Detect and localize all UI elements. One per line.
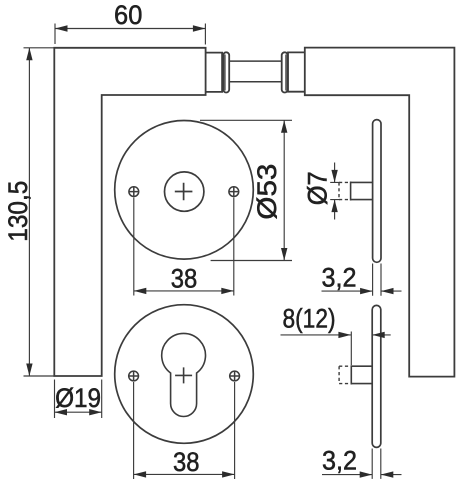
dim 60 ext lines xyxy=(55,24,205,45)
dim 38 upper arrows xyxy=(134,288,147,294)
left hub xyxy=(206,53,223,92)
left lever outline xyxy=(54,48,205,376)
svg-text:130,5: 130,5 xyxy=(3,181,33,242)
dim 3,2 upper ext lines xyxy=(373,264,381,296)
svg-text:60: 60 xyxy=(114,0,142,30)
upper pin dashed xyxy=(339,182,351,199)
key rosette circle xyxy=(115,305,254,444)
upper rose plate side view xyxy=(373,120,381,263)
dimension lines xyxy=(24,24,402,480)
PZ cross xyxy=(175,367,192,383)
dim O53 line xyxy=(283,120,285,260)
dim 38 upper line xyxy=(134,290,234,292)
lower pin dashed xyxy=(339,366,351,383)
dim O7 arrows xyxy=(331,170,337,183)
svg-text:3,2: 3,2 xyxy=(322,263,357,293)
lower left screw xyxy=(129,371,139,381)
left ring xyxy=(223,52,229,92)
rose circle front xyxy=(115,121,254,260)
lower right screw xyxy=(230,371,240,381)
right lever outline xyxy=(305,48,455,377)
dim O53 arrows xyxy=(281,120,287,133)
dim 38 lower arrows xyxy=(134,471,147,477)
right hub xyxy=(288,52,305,91)
dim 38 upper ext lines xyxy=(134,198,234,296)
dim 130,5 ext bottom xyxy=(24,375,55,377)
svg-text:8(12): 8(12) xyxy=(283,303,336,333)
rose hub circle xyxy=(165,172,204,211)
dim 3,2 upper lines xyxy=(322,290,402,292)
lower rose plate side view xyxy=(372,305,381,447)
dim 38 lower ext lines xyxy=(134,382,235,479)
upper left screw xyxy=(129,187,139,197)
svg-text:Ø53: Ø53 xyxy=(252,164,282,220)
upper pin solid xyxy=(351,182,373,201)
svg-text:38: 38 xyxy=(171,264,198,294)
arrowheads xyxy=(26,25,393,478)
lower pin solid xyxy=(351,365,372,384)
PZ cylinder hole xyxy=(162,333,206,416)
dim 3,2 lower lines xyxy=(322,474,402,476)
dim O19 line xyxy=(55,411,102,413)
svg-text:Ø19: Ø19 xyxy=(55,383,101,413)
dim 8(12) line xyxy=(281,334,391,336)
dim O53 ext lines xyxy=(200,120,292,260)
dim 60 arrows xyxy=(55,25,68,31)
dim 3,2 lower arrows xyxy=(360,471,373,477)
svg-text:3,2: 3,2 xyxy=(322,445,357,475)
dim 130,5 ext top xyxy=(24,47,55,49)
dim 130,5 line xyxy=(28,48,30,376)
dim 3,2 upper arrows xyxy=(360,288,373,294)
dim O7 ext lines xyxy=(330,182,340,199)
svg-text:Ø7: Ø7 xyxy=(303,171,333,205)
dim O7 arrows lines xyxy=(334,163,336,220)
dim 130,5 arrows xyxy=(26,48,32,61)
dim 38 lower line xyxy=(134,473,235,475)
right ring xyxy=(282,52,288,92)
spindle cross xyxy=(175,183,193,201)
upper right screw xyxy=(229,187,239,197)
svg-text:38: 38 xyxy=(173,447,200,477)
dim 8(12) ext line xyxy=(350,332,352,366)
dim 60 line xyxy=(55,28,205,30)
dim 3,2 lower ext lines xyxy=(372,449,381,479)
spindle xyxy=(229,61,282,82)
dim 8(12) arrows xyxy=(338,332,351,338)
dim O19 arrows xyxy=(55,409,68,415)
dim O19 ext lines xyxy=(55,380,102,419)
